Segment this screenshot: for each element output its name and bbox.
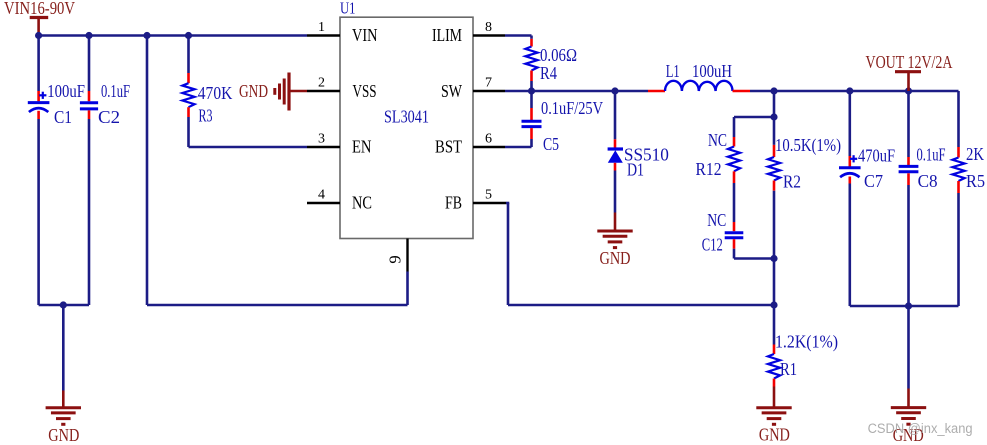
diode D1 red lead top bbox=[614, 139, 617, 149]
label C5 value 0.1uF/25V bbox=[541, 98, 603, 118]
svg-text:BST: BST bbox=[435, 137, 462, 157]
net label GND at VSS bbox=[239, 81, 268, 101]
label C8 bbox=[918, 171, 938, 191]
svg-text:FB: FB bbox=[445, 193, 462, 213]
wire R5 bottom lead bbox=[957, 193, 960, 306]
resistor R12 bbox=[728, 147, 740, 172]
inductor L1 bbox=[665, 81, 733, 91]
junction at EP riser top bbox=[143, 32, 150, 39]
resistor R5 red lead top bbox=[957, 147, 960, 158]
pin name ILIM bbox=[432, 25, 462, 45]
pin name EN bbox=[352, 137, 372, 157]
resistor R4 red lead bottom bbox=[530, 71, 533, 82]
junction at C1 top bbox=[35, 32, 42, 39]
svg-text:100uH: 100uH bbox=[692, 61, 732, 81]
junction VOUT C8 top bbox=[905, 87, 912, 94]
svg-text:SL3041: SL3041 bbox=[384, 106, 429, 126]
svg-text:9: 9 bbox=[386, 255, 405, 263]
svg-text:0.1uF: 0.1uF bbox=[101, 81, 130, 101]
wire R3 to EN bbox=[189, 117, 308, 147]
wire C1 top lead bbox=[37, 36, 40, 92]
pin 1 number bbox=[318, 20, 325, 35]
input ground stem bbox=[62, 391, 65, 408]
pin 2 VSS bbox=[307, 90, 340, 92]
svg-text:NC: NC bbox=[708, 130, 727, 150]
resistor R4 bbox=[525, 47, 537, 71]
svg-text:10.5K(1%): 10.5K(1%) bbox=[775, 135, 841, 156]
svg-text:GND: GND bbox=[759, 424, 790, 444]
label R4 bbox=[540, 63, 557, 83]
label U1 designator bbox=[340, 0, 356, 18]
wire to output ground bbox=[907, 306, 910, 389]
junction at C2 top bbox=[85, 32, 92, 39]
wire ILIM to R4 bbox=[505, 36, 532, 39]
svg-text:VSS: VSS bbox=[353, 81, 377, 101]
label D1 value SS510 bbox=[624, 144, 669, 164]
junction output gnd bbox=[905, 302, 912, 309]
wire pad 9 bottom run bbox=[147, 304, 408, 307]
pin 9 exposed pad bbox=[406, 239, 408, 272]
op-amp U1 SL3041 body bbox=[340, 17, 473, 238]
pin 1 VIN bbox=[307, 34, 340, 36]
svg-text:VIN: VIN bbox=[352, 25, 378, 45]
wire FB node to R1 bbox=[773, 305, 776, 345]
capacitor C1 bbox=[28, 92, 50, 112]
wire C8 top lead bbox=[907, 91, 910, 157]
label C12 bbox=[702, 234, 723, 254]
wire C5 top lead bbox=[530, 91, 533, 108]
svg-text:R2: R2 bbox=[783, 172, 801, 192]
capacitor C12 red lead top bbox=[733, 222, 736, 231]
power port VIN16-90V bbox=[30, 18, 49, 36]
wire C1 bottom lead bbox=[37, 119, 40, 305]
svg-text:100uF: 100uF bbox=[47, 81, 85, 101]
svg-text:C1: C1 bbox=[54, 107, 72, 127]
net label VOUT 12V/2A bbox=[866, 52, 953, 72]
diode D1 red lead bottom bbox=[614, 163, 617, 171]
net label VIN16-90V bbox=[4, 0, 75, 18]
capacitor C7 red lead bottom bbox=[848, 177, 851, 184]
capacitor C5 red lead bottom bbox=[530, 128, 533, 139]
capacitor C12 red lead bottom bbox=[733, 239, 736, 249]
svg-text:6: 6 bbox=[485, 132, 492, 147]
power port VOUT bbox=[895, 72, 921, 91]
wire to input ground bbox=[62, 305, 65, 391]
resistor R1 red lead bottom bbox=[773, 379, 776, 387]
svg-text:0.1uF/25V: 0.1uF/25V bbox=[541, 98, 603, 118]
label GND output bbox=[893, 425, 924, 445]
label U1 part SL3041 bbox=[384, 106, 429, 126]
pin 7 SW bbox=[473, 90, 505, 92]
ground stem R1 bbox=[773, 387, 776, 408]
pin name SW bbox=[441, 81, 462, 101]
pin 3 number bbox=[318, 132, 325, 147]
ground symbol output bbox=[891, 408, 926, 425]
wire FB run bbox=[506, 203, 774, 305]
svg-text:SW: SW bbox=[441, 81, 462, 101]
wire top rail VIN bbox=[39, 34, 307, 37]
svg-text:3: 3 bbox=[318, 132, 325, 147]
junction C12 return bbox=[770, 255, 777, 262]
wire VIN to pad 9 riser bbox=[146, 36, 149, 306]
label C5 bbox=[543, 134, 559, 154]
pin 5 FB bbox=[473, 202, 506, 204]
pin name FB bbox=[445, 193, 462, 213]
wire split to R12 bbox=[734, 117, 774, 137]
inductor L1 red lead right bbox=[733, 90, 751, 93]
resistor R1 bbox=[768, 354, 780, 379]
wire SW to L1 bbox=[505, 90, 648, 93]
wire output bottom rail bbox=[850, 305, 959, 308]
label C2 bbox=[98, 107, 120, 127]
diode D1 bbox=[608, 149, 623, 163]
resistor R12 red lead top bbox=[733, 137, 736, 147]
label C7 value 470uF bbox=[858, 146, 895, 166]
label L1 value 100uH bbox=[692, 61, 732, 81]
output ground stem bbox=[907, 389, 910, 408]
label R3 value 470K bbox=[198, 83, 233, 103]
wire R12 to C12 bbox=[733, 183, 736, 222]
svg-text:R12: R12 bbox=[696, 159, 722, 179]
resistor R2 red lead bottom bbox=[773, 181, 776, 191]
svg-text:C2: C2 bbox=[98, 107, 120, 127]
wire D1 to ground bbox=[614, 171, 617, 213]
resistor R3 red lead top bbox=[187, 73, 190, 83]
junction C7 top bbox=[846, 87, 853, 94]
label R5 bbox=[966, 171, 985, 191]
pin name NC bbox=[352, 193, 372, 213]
svg-text:7: 7 bbox=[485, 76, 492, 91]
inductor L1 red lead left bbox=[648, 90, 665, 93]
svg-text:C8: C8 bbox=[918, 171, 938, 191]
label C1 bbox=[54, 107, 72, 127]
pin 3 EN bbox=[307, 146, 340, 148]
pin 9 number bbox=[386, 255, 405, 263]
wire C1-C2 bottom rail bbox=[39, 304, 89, 307]
pin 4 NC bbox=[307, 202, 340, 204]
svg-text:GND: GND bbox=[48, 425, 79, 445]
svg-text:NC: NC bbox=[352, 193, 372, 213]
ground symbol input bbox=[46, 408, 81, 425]
label GND D1 bbox=[600, 248, 631, 268]
pin 7 number bbox=[485, 76, 492, 91]
svg-text:CSDN @inx_kang: CSDN @inx_kang bbox=[868, 421, 973, 436]
label R1 bbox=[780, 359, 797, 379]
svg-text:VIN16-90V: VIN16-90V bbox=[4, 0, 75, 18]
svg-text:C12: C12 bbox=[702, 234, 723, 254]
junction input gnd bbox=[60, 301, 67, 308]
ground symbol R1 bbox=[756, 408, 791, 425]
svg-text:VOUT 12V/2A: VOUT 12V/2A bbox=[866, 52, 953, 72]
svg-text:5: 5 bbox=[485, 188, 492, 203]
capacitor C5 bbox=[522, 121, 542, 126]
pin 4 number bbox=[318, 188, 325, 203]
capacitor C12 bbox=[725, 233, 744, 238]
label D1 bbox=[627, 160, 644, 180]
wire C2 top lead bbox=[88, 36, 91, 92]
svg-text:R5: R5 bbox=[966, 171, 985, 191]
svg-text:U1: U1 bbox=[340, 0, 356, 18]
capacitor C7 red lead top bbox=[848, 156, 851, 167]
capacitor C8 red lead top bbox=[907, 157, 910, 165]
label GND input bbox=[48, 425, 79, 445]
watermark CSDN @inx_kang bbox=[868, 421, 973, 436]
resistor R4 red lead top bbox=[530, 39, 533, 47]
resistor R2 bbox=[768, 157, 780, 181]
svg-text:2K: 2K bbox=[966, 144, 984, 164]
label C1 value 100uF bbox=[47, 81, 85, 101]
ground stem D1 bbox=[614, 213, 617, 232]
svg-text:0.1uF: 0.1uF bbox=[917, 144, 946, 164]
label C2 value 0.1uF bbox=[101, 81, 130, 101]
svg-text:ILIM: ILIM bbox=[432, 25, 462, 45]
wire split to R2 bbox=[773, 117, 776, 145]
wire D1 top lead bbox=[614, 91, 617, 139]
resistor R3 red lead bottom bbox=[187, 107, 190, 117]
label C7 bbox=[864, 171, 883, 191]
pin name VIN bbox=[352, 25, 378, 45]
svg-text:2: 2 bbox=[318, 76, 325, 91]
svg-text:EN: EN bbox=[352, 137, 372, 157]
capacitor C2 bbox=[80, 103, 98, 109]
wire C7 top lead bbox=[848, 91, 851, 156]
power port GND at VSS bbox=[275, 73, 307, 111]
capacitor C1 red lead bottom bbox=[37, 111, 40, 119]
junction L1 out / R2 bbox=[770, 87, 777, 94]
capacitor C1 red lead top bbox=[37, 91, 40, 101]
junction R4-C5 on SW bbox=[528, 87, 535, 94]
label GND R1 bbox=[759, 424, 790, 444]
resistor R5 bbox=[952, 158, 964, 182]
capacitor C8 red lead bottom bbox=[907, 173, 910, 185]
svg-text:C7: C7 bbox=[864, 171, 883, 191]
wire out to divider split bbox=[773, 91, 776, 117]
label R12 bbox=[696, 159, 722, 179]
capacitor C8 bbox=[899, 166, 919, 171]
svg-text:D1: D1 bbox=[627, 160, 644, 180]
wire R3 top lead bbox=[187, 36, 190, 74]
resistor R2 red lead top bbox=[773, 145, 776, 157]
junction at R3 top bbox=[185, 32, 192, 39]
label L1 bbox=[666, 61, 680, 81]
wire pad 9 vertical bbox=[406, 272, 409, 306]
svg-text:GND: GND bbox=[239, 81, 268, 101]
wire C2 bottom lead bbox=[88, 119, 91, 305]
wire R2 down to FB node bbox=[773, 191, 776, 305]
svg-text:R1: R1 bbox=[780, 359, 797, 379]
svg-text:1: 1 bbox=[318, 20, 325, 35]
svg-text:C5: C5 bbox=[543, 134, 559, 154]
pin 8 ILIM bbox=[473, 34, 505, 36]
capacitor C7 bbox=[839, 155, 861, 177]
capacitor C2 red lead bottom bbox=[88, 110, 91, 119]
pin 2 number bbox=[318, 76, 325, 91]
wire R5 top lead bbox=[957, 91, 960, 147]
svg-text:8: 8 bbox=[485, 20, 492, 35]
svg-text:R4: R4 bbox=[540, 63, 557, 83]
resistor R3 bbox=[182, 83, 194, 107]
label R2 bbox=[783, 172, 801, 192]
resistor R5 red lead bottom bbox=[957, 181, 960, 193]
wire R4 to SW bbox=[530, 81, 533, 91]
svg-text:470K: 470K bbox=[198, 83, 233, 103]
pin 5 number bbox=[485, 188, 492, 203]
label R4 value 0.06ohm bbox=[540, 45, 577, 65]
svg-text:1.2K(1%): 1.2K(1%) bbox=[775, 332, 838, 353]
wire C7 bottom lead bbox=[848, 184, 851, 307]
junction FB node bbox=[770, 301, 777, 308]
capacitor C2 red lead top bbox=[88, 91, 91, 101]
label R5 value 2K bbox=[966, 144, 984, 164]
resistor R1 red lead top bbox=[773, 345, 776, 355]
wire C12 bottom bbox=[734, 249, 774, 259]
junction D1 on SW bbox=[611, 87, 618, 94]
label R3 bbox=[199, 106, 213, 126]
svg-text:0.06Ω: 0.06Ω bbox=[540, 45, 577, 65]
pin 6 number bbox=[485, 132, 492, 147]
label C12 NC bbox=[707, 210, 726, 230]
svg-text:NC: NC bbox=[707, 210, 726, 230]
wire C5 to BST bbox=[505, 139, 532, 147]
pin name BST bbox=[435, 137, 462, 157]
wire L1 to output corner bbox=[750, 90, 959, 93]
svg-text:4: 4 bbox=[318, 188, 325, 203]
junction divider split bbox=[770, 113, 777, 120]
svg-text:GND: GND bbox=[600, 248, 631, 268]
ground symbol D1 bbox=[597, 231, 632, 248]
pin 8 number bbox=[485, 20, 492, 35]
pin name VSS bbox=[353, 81, 377, 101]
svg-text:470uF: 470uF bbox=[858, 146, 895, 166]
resistor R12 red lead bottom bbox=[733, 171, 736, 183]
capacitor C5 red lead top bbox=[530, 108, 533, 120]
svg-text:R3: R3 bbox=[199, 106, 213, 126]
label C8 value 0.1uF bbox=[917, 144, 946, 164]
wire C8 bottom lead bbox=[907, 185, 910, 306]
label R2 value 10.5K(1%) bbox=[775, 135, 841, 156]
label R1 value 1.2K(1%) bbox=[775, 332, 838, 353]
svg-text:L1: L1 bbox=[666, 61, 680, 81]
pin 6 BST bbox=[473, 146, 505, 148]
label R12 NC bbox=[708, 130, 727, 150]
